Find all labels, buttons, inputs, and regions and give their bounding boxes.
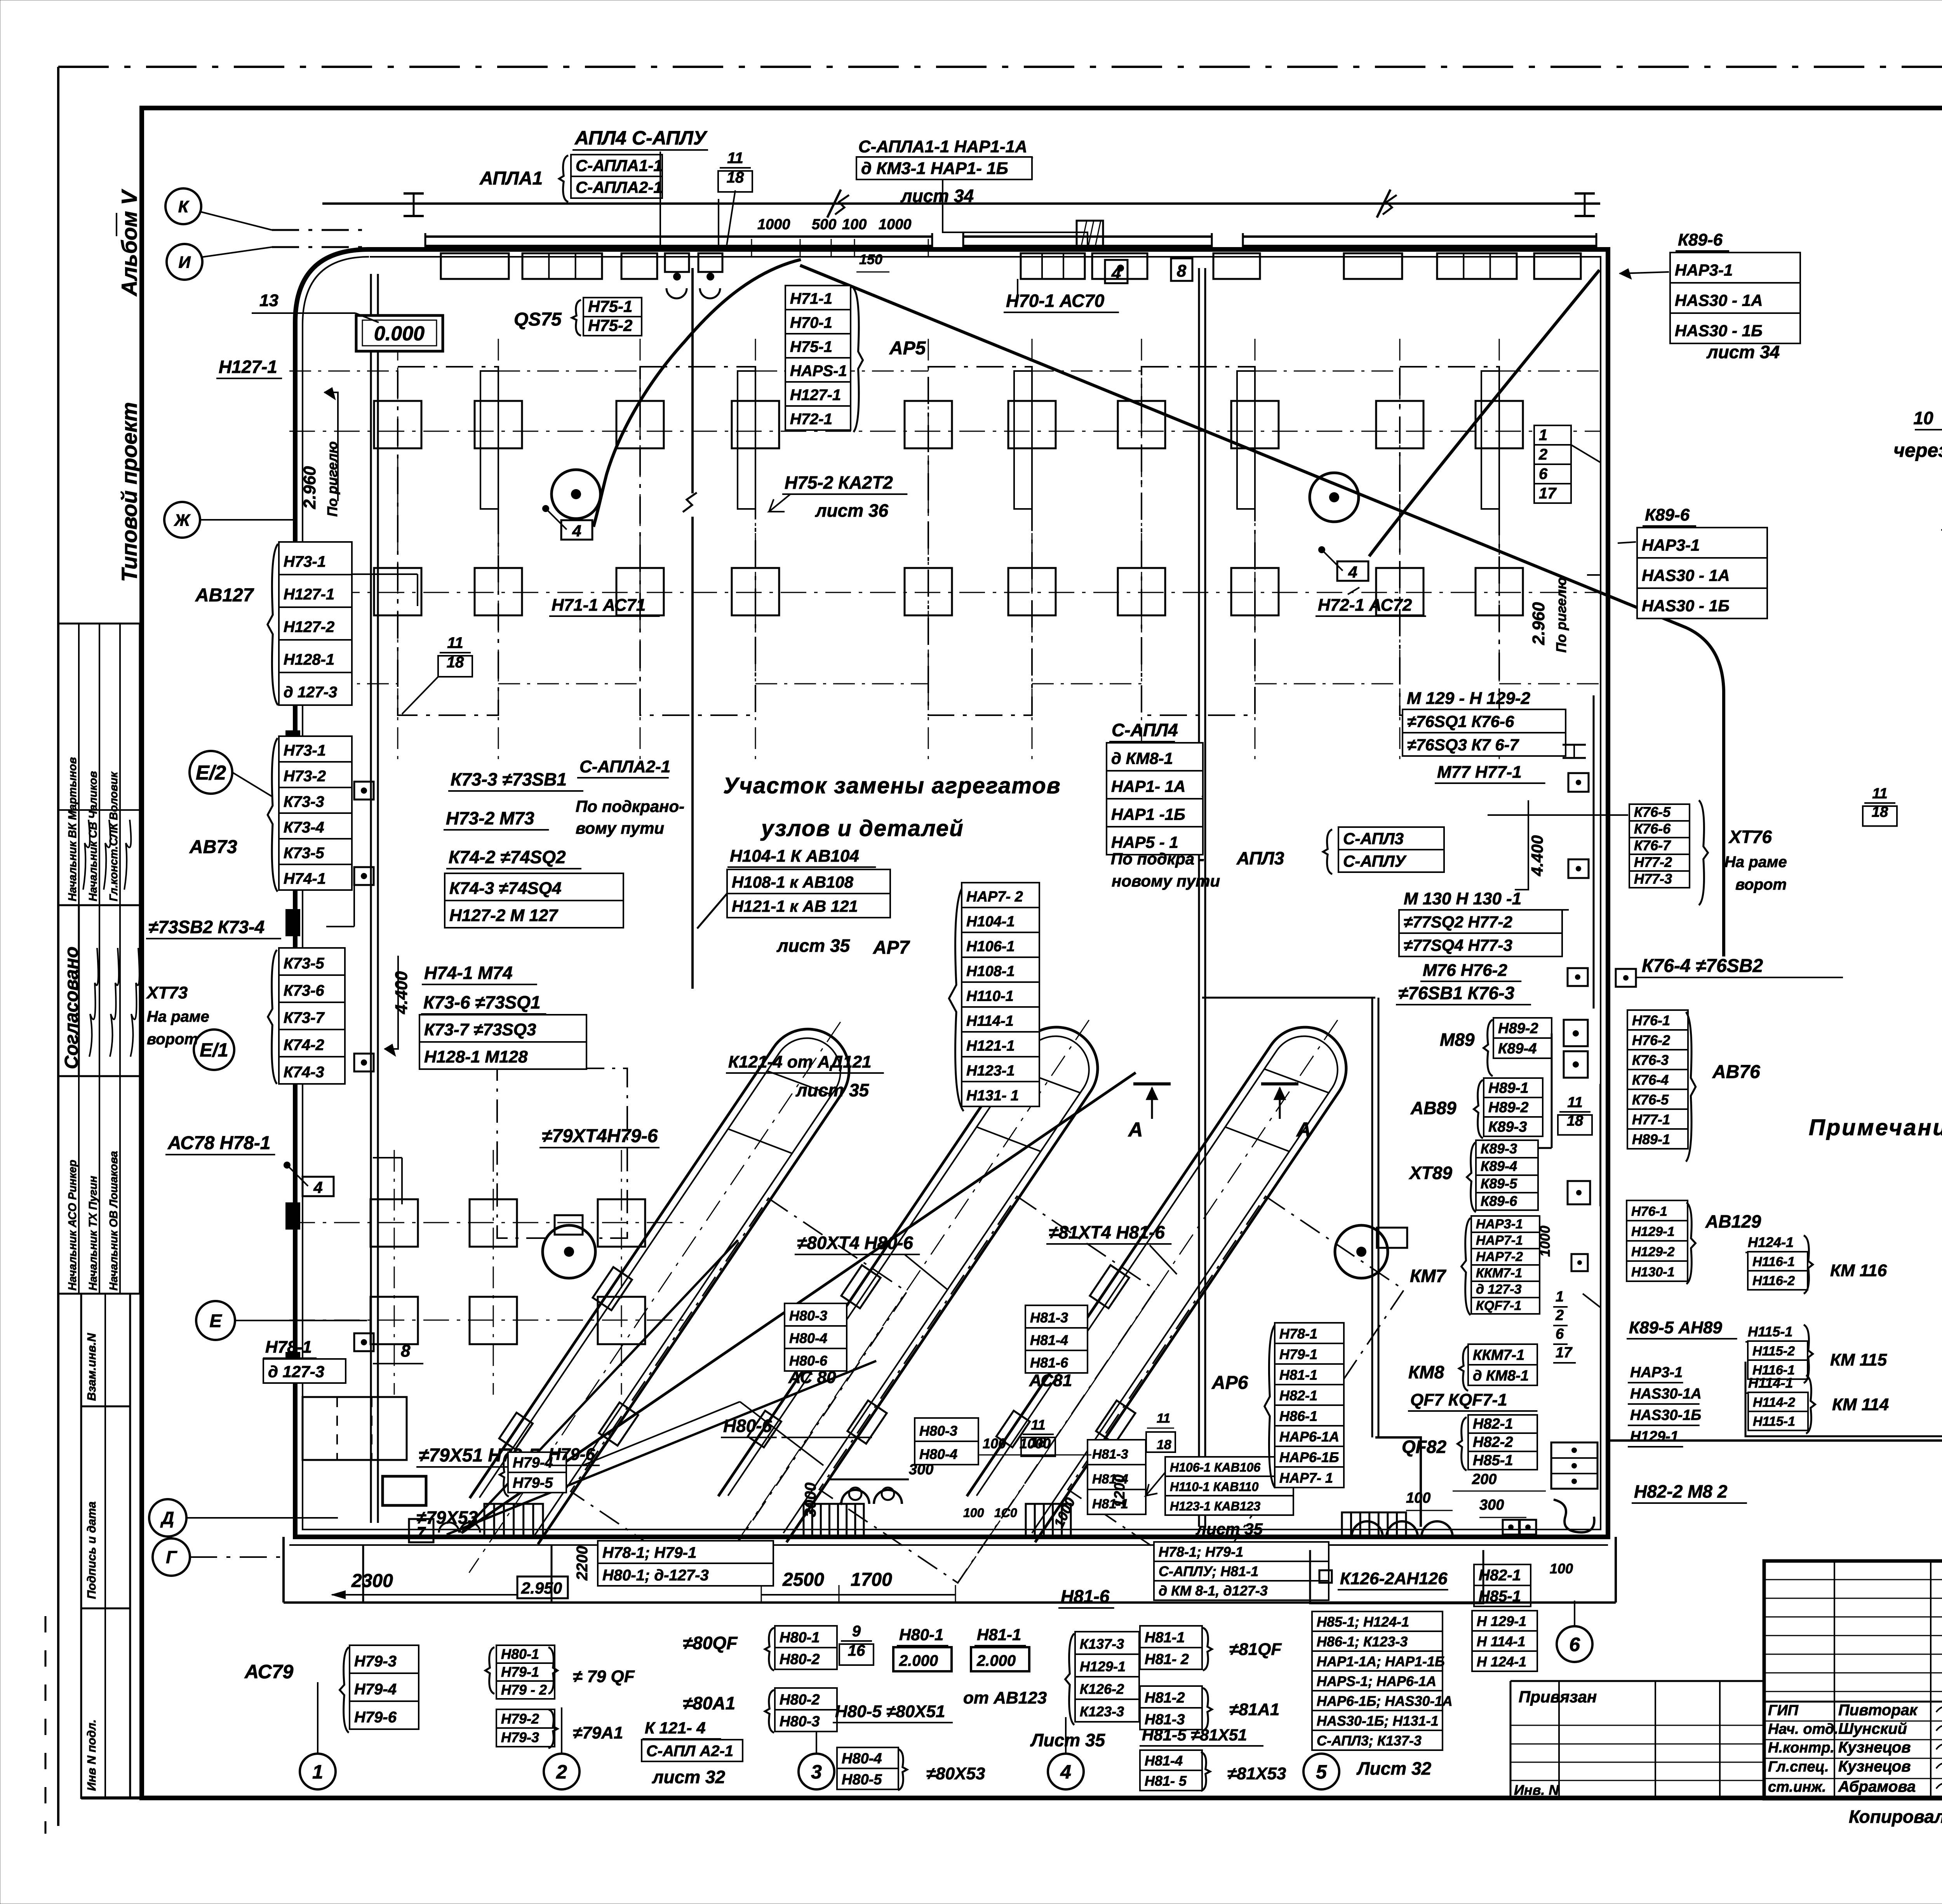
svg-text:Н81-4: Н81-4 bbox=[1145, 1753, 1183, 1769]
svg-text:11: 11 bbox=[1567, 1094, 1582, 1111]
svg-text:4: 4 bbox=[572, 522, 581, 540]
svg-text:ст.инж.: ст.инж. bbox=[1768, 1779, 1826, 1795]
svg-text:Н80-5 ≠80Х51: Н80-5 ≠80Х51 bbox=[835, 1702, 945, 1721]
svg-text:Н81-5 ≠81Х51: Н81-5 ≠81Х51 bbox=[1142, 1726, 1247, 1744]
svg-text:Взам.инв.N: Взам.инв.N bbox=[85, 1333, 98, 1401]
svg-text:лист 35: лист 35 bbox=[795, 1080, 870, 1100]
svg-text:КМ 115: КМ 115 bbox=[1830, 1350, 1887, 1369]
svg-text:300: 300 bbox=[909, 1462, 933, 1478]
svg-text:К74-3: К74-3 bbox=[284, 1064, 324, 1081]
svg-text:Н129-1: Н129-1 bbox=[1631, 1225, 1675, 1239]
svg-text:д КМ 8-1, д127-3: д КМ 8-1, д127-3 bbox=[1159, 1583, 1268, 1599]
svg-text:узлов и деталей: узлов и деталей bbox=[760, 816, 964, 841]
svg-text:К123-3: К123-3 bbox=[1080, 1704, 1124, 1719]
svg-text:Копировал Максимова: Копировал Максимова bbox=[1849, 1806, 1942, 1827]
svg-text:ХТ76: ХТ76 bbox=[1728, 827, 1772, 847]
svg-text:Н79 - 2: Н79 - 2 bbox=[501, 1682, 547, 1698]
svg-text:д 127-3: д 127-3 bbox=[1476, 1282, 1522, 1297]
svg-text:4: 4 bbox=[1060, 1761, 1071, 1783]
svg-text:АС79: АС79 bbox=[244, 1661, 294, 1683]
svg-text:Н73-2 М73: Н73-2 М73 bbox=[446, 808, 534, 828]
svg-text:Н80-4: Н80-4 bbox=[842, 1751, 882, 1767]
svg-text:ворот: ворот bbox=[147, 1031, 198, 1048]
svg-text:Е: Е bbox=[209, 1310, 222, 1331]
svg-text:АПЛА1: АПЛА1 bbox=[479, 168, 543, 189]
svg-text:2.950: 2.950 bbox=[521, 1579, 562, 1597]
svg-text:Н79-6: Н79-6 bbox=[548, 1445, 595, 1464]
svg-text:д КМ3-1 НАР1- 1Б: д КМ3-1 НАР1- 1Б bbox=[861, 159, 1008, 178]
svg-text:Г: Г bbox=[166, 1547, 177, 1567]
svg-text:500: 500 bbox=[812, 216, 836, 233]
svg-text:НАР6-1Б: НАР6-1Б bbox=[1279, 1449, 1339, 1465]
svg-text:Примечания и спецификация: Примечания и спецификация на листе 32 bbox=[1809, 1115, 1942, 1140]
svg-text:Н80-1; д-127-3: Н80-1; д-127-3 bbox=[602, 1567, 709, 1584]
svg-text:Н80-3: Н80-3 bbox=[789, 1308, 827, 1324]
svg-text:2.960: 2.960 bbox=[300, 466, 319, 509]
svg-text:Подпись и дата: Подпись и дата bbox=[85, 1502, 98, 1599]
svg-text:А: А bbox=[1296, 1118, 1311, 1141]
svg-text:Н81-1: Н81-1 bbox=[1279, 1367, 1317, 1383]
svg-text:Ж: Ж bbox=[174, 511, 191, 530]
svg-text:С-АПЛУ; Н81-1: С-АПЛУ; Н81-1 bbox=[1159, 1563, 1258, 1579]
svg-text:Н106-1: Н106-1 bbox=[966, 939, 1015, 955]
svg-text:Н116-2: Н116-2 bbox=[1752, 1273, 1795, 1288]
svg-text:Н79-4: Н79-4 bbox=[513, 1455, 553, 1471]
svg-text:Н115-1: Н115-1 bbox=[1748, 1324, 1792, 1340]
svg-text:Н80-5: Н80-5 bbox=[842, 1772, 882, 1788]
svg-text:лист 36: лист 36 bbox=[815, 500, 889, 521]
svg-text:лист 34: лист 34 bbox=[1706, 342, 1780, 362]
svg-text:НАР6-1А: НАР6-1А bbox=[1279, 1428, 1339, 1444]
svg-text:ХТ89: ХТ89 bbox=[1408, 1163, 1452, 1183]
svg-text:Н129-1: Н129-1 bbox=[1080, 1658, 1126, 1674]
svg-text:Н85-1: Н85-1 bbox=[1473, 1453, 1513, 1469]
svg-text:К73-7 ≠73SQ3: К73-7 ≠73SQ3 bbox=[424, 1020, 536, 1039]
svg-text:Н124-1: Н124-1 bbox=[1748, 1234, 1794, 1250]
svg-text:Привязан: Привязан bbox=[1519, 1688, 1597, 1706]
svg-text:2.960: 2.960 bbox=[1529, 602, 1548, 645]
svg-text:Н81-6: Н81-6 bbox=[1061, 1586, 1110, 1606]
svg-text:АВ129: АВ129 bbox=[1705, 1211, 1761, 1232]
svg-text:Н115-1: Н115-1 bbox=[1753, 1414, 1795, 1429]
svg-text:К73-6: К73-6 bbox=[284, 982, 324, 999]
svg-text:С-АПЛУ: С-АПЛУ bbox=[1343, 852, 1407, 870]
svg-text:Н79-5: Н79-5 bbox=[513, 1475, 553, 1491]
svg-text:11: 11 bbox=[1157, 1411, 1170, 1426]
svg-text:Н129-2: Н129-2 bbox=[1631, 1245, 1675, 1259]
svg-text:1: 1 bbox=[312, 1761, 323, 1783]
svg-text:Н71-1 АС71: Н71-1 АС71 bbox=[552, 596, 646, 615]
svg-text:Альбом V: Альбом V bbox=[117, 189, 141, 297]
svg-text:Н80-6: Н80-6 bbox=[723, 1416, 772, 1436]
svg-text:НАР7- 1: НАР7- 1 bbox=[1279, 1470, 1333, 1486]
svg-text:через 800 мм.: через 800 мм. bbox=[1893, 439, 1942, 461]
svg-text:Н130-1: Н130-1 bbox=[1631, 1265, 1675, 1280]
svg-text:К76-5: К76-5 bbox=[1634, 804, 1671, 820]
svg-text:К 121- 4: К 121- 4 bbox=[645, 1719, 706, 1737]
svg-text:2: 2 bbox=[1555, 1307, 1564, 1324]
svg-text:Н131- 1: Н131- 1 bbox=[966, 1088, 1019, 1104]
svg-text:Н82-2 М8 2: Н82-2 М8 2 bbox=[1634, 1481, 1728, 1502]
svg-text:Начальник АСО Ринкер: Начальник АСО Ринкер bbox=[66, 1160, 79, 1291]
svg-text:лист 35: лист 35 bbox=[776, 935, 851, 956]
svg-text:Кузнецов: Кузнецов bbox=[1838, 1739, 1911, 1756]
svg-text:Н114-2: Н114-2 bbox=[1753, 1395, 1795, 1410]
svg-text:НАS30-1Б: НАS30-1Б bbox=[1630, 1407, 1701, 1423]
svg-text:К73-7: К73-7 bbox=[284, 1009, 325, 1026]
svg-text:Инв N подл.: Инв N подл. bbox=[85, 1719, 98, 1791]
svg-text:ККМ7-1: ККМ7-1 bbox=[1476, 1266, 1522, 1280]
svg-text:НАР3-1: НАР3-1 bbox=[1476, 1217, 1523, 1232]
svg-text:Н78-1; Н79-1: Н78-1; Н79-1 bbox=[602, 1544, 696, 1561]
svg-text:К137-3: К137-3 bbox=[1080, 1636, 1124, 1652]
svg-text:Н76-2: Н76-2 bbox=[1632, 1032, 1670, 1048]
svg-text:2300: 2300 bbox=[351, 1571, 393, 1591]
svg-text:Н76-1: Н76-1 bbox=[1632, 1012, 1670, 1028]
svg-text:С-АПЛА2-1: С-АПЛА2-1 bbox=[579, 757, 670, 776]
svg-text:4.400: 4.400 bbox=[392, 971, 411, 1014]
svg-text:НАР3-1: НАР3-1 bbox=[1630, 1364, 1683, 1381]
svg-text:М89: М89 bbox=[1440, 1030, 1475, 1050]
svg-text:2200: 2200 bbox=[574, 1546, 591, 1581]
svg-text:Н89-2: Н89-2 bbox=[1498, 1021, 1538, 1037]
svg-text:1700: 1700 bbox=[851, 1570, 892, 1590]
svg-text:Н81-1: Н81-1 bbox=[977, 1625, 1021, 1644]
svg-text:Н73-1: Н73-1 bbox=[284, 553, 326, 570]
svg-text:К89-4: К89-4 bbox=[1498, 1041, 1537, 1057]
svg-text:Н116-1: Н116-1 bbox=[1752, 1254, 1795, 1269]
svg-text:11: 11 bbox=[1031, 1417, 1045, 1433]
svg-text:НАРS-1; НАР6-1А: НАРS-1; НАР6-1А bbox=[1317, 1673, 1436, 1689]
svg-text:Е/2: Е/2 bbox=[196, 762, 226, 784]
svg-text:А: А bbox=[1128, 1118, 1143, 1141]
svg-text:К89-6: К89-6 bbox=[1678, 230, 1723, 249]
svg-text:И: И bbox=[179, 253, 191, 272]
svg-text:150: 150 bbox=[859, 251, 882, 267]
svg-text:КМ7: КМ7 bbox=[1410, 1266, 1447, 1286]
svg-text:4.400: 4.400 bbox=[1528, 835, 1546, 876]
svg-text:Н72-1: Н72-1 bbox=[790, 411, 832, 428]
svg-text:Кузнецов: Кузнецов bbox=[1838, 1758, 1911, 1775]
svg-text:К73-4: К73-4 bbox=[284, 819, 324, 836]
svg-text:6: 6 bbox=[1556, 1326, 1564, 1342]
svg-text:Н79-3: Н79-3 bbox=[501, 1729, 539, 1745]
svg-text:Н74-1 М74: Н74-1 М74 bbox=[424, 963, 513, 983]
svg-text:Инв. N: Инв. N bbox=[1514, 1782, 1559, 1798]
svg-text:Н74-1: Н74-1 bbox=[284, 870, 326, 887]
svg-text:100: 100 bbox=[1550, 1561, 1573, 1577]
svg-text:Н79-4: Н79-4 bbox=[354, 1681, 397, 1698]
svg-text:8: 8 bbox=[1177, 261, 1187, 280]
svg-text:Абрамова: Абрамова bbox=[1838, 1778, 1916, 1795]
svg-text:НАS30 - 1Б: НАS30 - 1Б bbox=[1642, 596, 1730, 615]
svg-text:Шунский: Шунский bbox=[1838, 1720, 1907, 1737]
svg-text:Н123-1 КАВ123: Н123-1 КАВ123 bbox=[1170, 1499, 1260, 1513]
svg-text:1: 1 bbox=[1539, 427, 1547, 444]
svg-text:Н80-4: Н80-4 bbox=[919, 1446, 957, 1462]
svg-text:Начальник СВ Чаликов: Начальник СВ Чаликов bbox=[87, 771, 99, 901]
svg-text:Н81- 2: Н81- 2 bbox=[1145, 1651, 1189, 1668]
svg-text:Н80-4: Н80-4 bbox=[789, 1330, 827, 1346]
svg-text:≠80QF: ≠80QF bbox=[683, 1633, 738, 1653]
svg-text:Н80-6: Н80-6 bbox=[789, 1353, 828, 1369]
svg-text:Н79-6: Н79-6 bbox=[354, 1709, 397, 1726]
svg-text:300: 300 bbox=[1479, 1497, 1504, 1513]
svg-text:По ригелю: По ригелю bbox=[1553, 577, 1569, 653]
svg-text:К73-5: К73-5 bbox=[284, 845, 324, 862]
svg-text:100: 100 bbox=[983, 1435, 1006, 1451]
svg-text:К89-3: К89-3 bbox=[1488, 1119, 1527, 1135]
svg-text:3: 3 bbox=[811, 1761, 822, 1783]
svg-text:2: 2 bbox=[556, 1761, 567, 1783]
svg-text:4: 4 bbox=[1348, 563, 1357, 581]
svg-text:Н75-2 КА2Т2: Н75-2 КА2Т2 bbox=[785, 472, 893, 493]
svg-text:≠76SQ1 К76-6: ≠76SQ1 К76-6 bbox=[1407, 712, 1514, 731]
svg-text:11: 11 bbox=[1872, 786, 1887, 802]
svg-text:Нач. отд.: Нач. отд. bbox=[1768, 1721, 1838, 1737]
svg-text:Н 124-1: Н 124-1 bbox=[1477, 1654, 1526, 1670]
svg-text:11: 11 bbox=[727, 150, 743, 167]
svg-text:Н81-3: Н81-3 bbox=[1030, 1310, 1068, 1326]
svg-text:К89-6: К89-6 bbox=[1645, 505, 1690, 524]
svg-text:Н108-1 к АВ108: Н108-1 к АВ108 bbox=[732, 873, 854, 891]
svg-text:Н81-6: Н81-6 bbox=[1030, 1355, 1068, 1371]
svg-text:9: 9 bbox=[852, 1623, 861, 1640]
svg-text:1000: 1000 bbox=[1537, 1226, 1553, 1257]
svg-text:Н89-1: Н89-1 bbox=[1488, 1080, 1529, 1096]
svg-text:К76-3: К76-3 bbox=[1632, 1052, 1669, 1068]
svg-text:НАР7- 2: НАР7- 2 bbox=[966, 889, 1023, 905]
svg-text:Пивторак: Пивторак bbox=[1838, 1702, 1918, 1719]
svg-text:Н81- 5: Н81- 5 bbox=[1145, 1773, 1187, 1789]
svg-text:НАР1-1А; НАР1-1Б: НАР1-1А; НАР1-1Б bbox=[1317, 1653, 1445, 1669]
svg-text:Н123-1: Н123-1 bbox=[966, 1063, 1015, 1079]
svg-text:АР6: АР6 bbox=[1211, 1373, 1248, 1393]
svg-text:Начальник ОВ Лошакова: Начальник ОВ Лошакова bbox=[108, 1151, 120, 1291]
svg-text:Начальник ВК Мартынов: Начальник ВК Мартынов bbox=[66, 757, 79, 901]
svg-text:3000: 3000 bbox=[802, 1482, 819, 1517]
svg-text:Н108-1: Н108-1 bbox=[966, 963, 1015, 980]
svg-text:К74-2 ≠74SQ2: К74-2 ≠74SQ2 bbox=[449, 847, 566, 867]
svg-text:К76-5: К76-5 bbox=[1632, 1092, 1669, 1108]
svg-text:Н127-2: Н127-2 bbox=[284, 618, 334, 636]
svg-text:Начальник ТХ Пугин: Начальник ТХ Пугин bbox=[87, 1176, 99, 1291]
svg-text:Лист 35: Лист 35 bbox=[1030, 1730, 1106, 1750]
svg-text:Н89-2: Н89-2 bbox=[1488, 1099, 1529, 1116]
svg-text:≠81А1: ≠81А1 bbox=[1229, 1700, 1279, 1719]
svg-text:АПЛ3: АПЛ3 bbox=[1236, 848, 1284, 868]
svg-text:КМ 116: КМ 116 bbox=[1830, 1261, 1887, 1280]
svg-text:100: 100 bbox=[1406, 1490, 1430, 1506]
svg-text:Н79-2: Н79-2 bbox=[501, 1711, 539, 1726]
svg-text:Н80-3: Н80-3 bbox=[919, 1423, 957, 1439]
svg-text:Н110-1 КАВ110: Н110-1 КАВ110 bbox=[1170, 1480, 1259, 1494]
svg-text:АР7: АР7 bbox=[873, 937, 910, 958]
svg-text:Н71-1: Н71-1 bbox=[790, 290, 832, 307]
svg-text:Н114-1: Н114-1 bbox=[966, 1013, 1014, 1030]
svg-text:АВ76: АВ76 bbox=[1712, 1062, 1760, 1082]
svg-text:17: 17 bbox=[1539, 485, 1557, 502]
svg-text:По подкрано-: По подкрано- bbox=[576, 797, 684, 815]
svg-text:АВ89: АВ89 bbox=[1410, 1098, 1456, 1118]
svg-text:Н82-1: Н82-1 bbox=[1473, 1416, 1513, 1432]
svg-text:≠79Х53: ≠79Х53 bbox=[416, 1507, 478, 1528]
svg-text:АС81: АС81 bbox=[1029, 1371, 1072, 1390]
svg-text:Н81-3: Н81-3 bbox=[1092, 1447, 1128, 1462]
svg-text:Н79-1: Н79-1 bbox=[501, 1664, 539, 1680]
svg-text:2500: 2500 bbox=[782, 1570, 824, 1590]
svg-text:≠76SQ3 К7 6-7: ≠76SQ3 К7 6-7 bbox=[1407, 736, 1519, 754]
svg-text:100: 100 bbox=[842, 216, 867, 233]
svg-text:С-АПЛ3; К137-3: С-АПЛ3; К137-3 bbox=[1317, 1733, 1422, 1749]
svg-text:НАS30 - 1Б: НАS30 - 1Б bbox=[1675, 321, 1763, 340]
svg-text:Н80-1: Н80-1 bbox=[780, 1630, 820, 1646]
svg-text:Н81-1: Н81-1 bbox=[1145, 1630, 1185, 1646]
svg-text:К126-2АН126: К126-2АН126 bbox=[1340, 1569, 1448, 1588]
svg-text:6: 6 bbox=[1569, 1634, 1580, 1655]
svg-text:Н77-2: Н77-2 bbox=[1634, 854, 1672, 870]
svg-text:Н.контр.: Н.контр. bbox=[1768, 1740, 1834, 1756]
svg-text:Н72-1 АС72: Н72-1 АС72 bbox=[1318, 596, 1412, 615]
svg-text:1: 1 bbox=[1556, 1289, 1564, 1305]
svg-text:Н85-1; Н124-1: Н85-1; Н124-1 bbox=[1317, 1614, 1409, 1630]
svg-text:АВ73: АВ73 bbox=[189, 837, 237, 857]
svg-text:Гл.спец.: Гл.спец. bbox=[1768, 1759, 1829, 1775]
svg-text:К73-3 ≠73SВ1: К73-3 ≠73SВ1 bbox=[451, 769, 567, 789]
svg-text:Н80-2: Н80-2 bbox=[780, 1692, 820, 1708]
svg-text:Н127-1: Н127-1 bbox=[790, 387, 841, 404]
svg-text:М 130 Н 130 -1: М 130 Н 130 -1 bbox=[1404, 889, 1521, 908]
svg-text:8: 8 bbox=[401, 1341, 411, 1360]
svg-text:НАР3-1: НАР3-1 bbox=[1675, 261, 1733, 279]
svg-text:Н121-1: Н121-1 bbox=[966, 1038, 1015, 1054]
svg-text:КМ8: КМ8 bbox=[1408, 1362, 1444, 1382]
svg-text:Н104-1: Н104-1 bbox=[966, 914, 1015, 930]
svg-text:≠81Х53: ≠81Х53 bbox=[1227, 1764, 1286, 1783]
svg-text:Н128-1: Н128-1 bbox=[284, 651, 334, 668]
svg-text:Н115-2: Н115-2 bbox=[1752, 1344, 1795, 1359]
svg-text:1000: 1000 bbox=[1020, 1435, 1051, 1451]
svg-text:С-АПЛА1-1: С-АПЛА1-1 bbox=[576, 157, 663, 175]
svg-text:ХТ73: ХТ73 bbox=[146, 983, 188, 1002]
svg-text:2.000: 2.000 bbox=[976, 1652, 1016, 1669]
svg-text:С-АПЛ А2-1: С-АПЛ А2-1 bbox=[646, 1743, 733, 1760]
svg-text:Н80-3: Н80-3 bbox=[780, 1714, 820, 1730]
svg-text:1000: 1000 bbox=[879, 216, 912, 233]
svg-text:Н114-1: Н114-1 bbox=[1748, 1375, 1793, 1391]
svg-text:АВ127: АВ127 bbox=[195, 585, 254, 606]
svg-text:НАS30 - 1А: НАS30 - 1А bbox=[1675, 291, 1763, 309]
svg-text:ворот: ворот bbox=[1735, 876, 1787, 893]
svg-text:≠80Х53: ≠80Х53 bbox=[926, 1764, 985, 1783]
svg-text:10: 10 bbox=[1913, 408, 1933, 428]
svg-text:Н127-2 М 127: Н127-2 М 127 bbox=[449, 906, 559, 925]
svg-text:Н70-1 АС70: Н70-1 АС70 bbox=[1006, 291, 1105, 311]
svg-text:М76 Н76-2: М76 Н76-2 bbox=[1423, 961, 1507, 980]
svg-text:КQF7-1: КQF7-1 bbox=[1476, 1298, 1521, 1313]
svg-text:Н79-1: Н79-1 bbox=[1279, 1346, 1317, 1362]
svg-text:К89-3: К89-3 bbox=[1481, 1141, 1517, 1157]
svg-text:18: 18 bbox=[1157, 1437, 1171, 1452]
svg-text:6: 6 bbox=[1539, 465, 1548, 483]
svg-text:11: 11 bbox=[447, 634, 463, 652]
svg-text:Н79-3: Н79-3 bbox=[354, 1653, 397, 1670]
svg-text:НАS30-1Б; Н131-1: НАS30-1Б; Н131-1 bbox=[1317, 1713, 1439, 1729]
svg-text:С-АПЛА2-1: С-АПЛА2-1 bbox=[576, 178, 663, 197]
svg-text:Н127-1: Н127-1 bbox=[284, 586, 334, 603]
svg-text:НАР7-1: НАР7-1 bbox=[1476, 1233, 1523, 1248]
svg-text:Н73-2: Н73-2 bbox=[284, 768, 326, 785]
svg-text:НАР1- 1А: НАР1- 1А bbox=[1111, 777, 1185, 796]
svg-text:д 127-3: д 127-3 bbox=[284, 684, 337, 701]
svg-text:5: 5 bbox=[1316, 1761, 1327, 1783]
svg-text:КМ 114: КМ 114 bbox=[1832, 1395, 1889, 1414]
svg-text:2.000: 2.000 bbox=[899, 1652, 938, 1669]
svg-text:М77 Н77-1: М77 Н77-1 bbox=[1437, 763, 1522, 782]
svg-text:К121-4 от АД121: К121-4 от АД121 bbox=[728, 1052, 872, 1071]
svg-text:Гл.конст.СЛК Воловик: Гл.конст.СЛК Воловик bbox=[108, 772, 120, 901]
svg-text:Н 129-1: Н 129-1 bbox=[1477, 1613, 1526, 1629]
svg-text:С-АПЛ3: С-АПЛ3 bbox=[1343, 829, 1404, 848]
svg-text:Н104-1 К АВ104: Н104-1 К АВ104 bbox=[730, 847, 859, 866]
svg-text:К89-5 АН89: К89-5 АН89 bbox=[1629, 1318, 1722, 1337]
svg-text:≠77SQ2 Н77-2: ≠77SQ2 Н77-2 bbox=[1404, 913, 1512, 932]
svg-text:Н86-1: Н86-1 bbox=[1279, 1408, 1317, 1424]
svg-text:Н70-1: Н70-1 bbox=[790, 314, 832, 331]
svg-text:К76-4: К76-4 bbox=[1632, 1072, 1669, 1088]
svg-text:НАР5 - 1: НАР5 - 1 bbox=[1111, 833, 1178, 852]
svg-text:≠80А1: ≠80А1 bbox=[683, 1693, 735, 1713]
svg-text:К89-4: К89-4 bbox=[1481, 1158, 1517, 1174]
svg-text:Н80-1: Н80-1 bbox=[899, 1625, 943, 1644]
svg-text:К74-2: К74-2 bbox=[284, 1036, 324, 1054]
svg-text:Н73-1: Н73-1 bbox=[284, 742, 326, 759]
svg-text:д КМ8-1: д КМ8-1 bbox=[1473, 1367, 1529, 1384]
svg-text:лист 32: лист 32 bbox=[652, 1767, 726, 1787]
svg-text:1000: 1000 bbox=[757, 216, 790, 233]
svg-text:д 127-3: д 127-3 bbox=[268, 1362, 324, 1381]
svg-text:QS75: QS75 bbox=[514, 309, 562, 330]
svg-text:Н78-1; Н79-1: Н78-1; Н79-1 bbox=[1159, 1544, 1243, 1560]
svg-text:≠79ХТ4Н79-6: ≠79ХТ4Н79-6 bbox=[542, 1126, 658, 1146]
svg-text:Н127-1: Н127-1 bbox=[219, 357, 277, 377]
svg-text:К76-4 ≠76SВ2: К76-4 ≠76SВ2 bbox=[1642, 956, 1763, 976]
svg-text:ККМ7-1: ККМ7-1 bbox=[1473, 1347, 1524, 1363]
svg-text:лист 35: лист 35 bbox=[1195, 1520, 1263, 1538]
svg-text:≠73SВ2 К73-4: ≠73SВ2 К73-4 bbox=[148, 917, 265, 937]
svg-text:17: 17 bbox=[1556, 1345, 1573, 1361]
svg-text:Н106-1 КАВ106: Н106-1 КАВ106 bbox=[1170, 1460, 1260, 1474]
svg-text:На раме: На раме bbox=[1724, 854, 1787, 871]
svg-text:М 129 - Н 129-2: М 129 - Н 129-2 bbox=[1407, 689, 1530, 708]
svg-text:Н75-2: Н75-2 bbox=[588, 316, 632, 334]
svg-text:Н80-1: Н80-1 bbox=[501, 1646, 539, 1662]
svg-text:Н128-1 М128: Н128-1 М128 bbox=[424, 1047, 528, 1066]
svg-text:д КМ8-1: д КМ8-1 bbox=[1111, 749, 1173, 768]
svg-text:НАР3-1: НАР3-1 bbox=[1642, 536, 1700, 554]
svg-text:К89-6: К89-6 bbox=[1481, 1193, 1517, 1209]
svg-text:Н81-4: Н81-4 bbox=[1030, 1332, 1068, 1348]
svg-text:≠ 79 QF: ≠ 79 QF bbox=[573, 1667, 635, 1686]
svg-text:Н110-1: Н110-1 bbox=[966, 988, 1014, 1005]
svg-text:Е/1: Е/1 bbox=[200, 1040, 228, 1061]
svg-text:2: 2 bbox=[1538, 446, 1547, 463]
svg-text:АС78 Н78-1: АС78 Н78-1 bbox=[167, 1133, 270, 1153]
svg-text:Н129-1: Н129-1 bbox=[1630, 1428, 1679, 1445]
svg-text:Н78-1: Н78-1 bbox=[1279, 1326, 1317, 1341]
svg-text:≠77SQ4 Н77-3: ≠77SQ4 Н77-3 bbox=[1404, 936, 1512, 955]
svg-text:НАР7-2: НАР7-2 bbox=[1476, 1249, 1523, 1264]
